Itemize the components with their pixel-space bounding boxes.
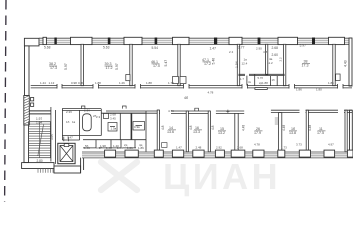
svg-text:1.47: 1.47 xyxy=(210,47,217,51)
watermark text CIAN xyxy=(163,156,281,197)
svg-text:4.48: 4.48 xyxy=(308,125,312,131)
svg-text:ЦИАН: ЦИАН xyxy=(163,156,281,197)
lower rooms top wall (corridor bottom) xyxy=(62,109,352,114)
room5 inner partition xyxy=(266,44,268,74)
svg-text:2.3: 2.3 xyxy=(96,115,101,119)
svg-text:0.97: 0.97 xyxy=(96,146,102,150)
svg-text:11.2: 11.2 xyxy=(267,61,273,65)
svg-text:5.63: 5.63 xyxy=(103,45,110,49)
window W6 xyxy=(278,37,298,44)
warren internal partitions xyxy=(62,109,146,152)
svg-text:1б: 1б xyxy=(272,78,276,82)
svg-text:17.9: 17.9 xyxy=(254,131,261,135)
chimney stubs xyxy=(82,106,127,109)
svg-text:4.8: 4.8 xyxy=(189,125,193,130)
svg-text:2.2: 2.2 xyxy=(278,57,282,62)
svg-text:17.2: 17.2 xyxy=(204,62,211,66)
partition lower rooms G/H xyxy=(345,110,347,152)
partition lower rooms A/B xyxy=(157,110,159,152)
svg-text:1.86: 1.86 xyxy=(296,88,302,92)
partition lower rooms E/F (T2 stem) xyxy=(278,113,281,152)
bottom wall hatched band xyxy=(82,152,353,158)
svg-text:2.3б: 2.3б xyxy=(84,108,90,112)
svg-text:5.97: 5.97 xyxy=(64,63,68,70)
svg-text:0.9в: 0.9в xyxy=(134,125,140,129)
svg-text:5.7б: 5.7б xyxy=(258,76,264,80)
svg-text:1.48: 1.48 xyxy=(106,146,112,150)
WC fixtures xyxy=(104,114,145,132)
bottom-left wall band under stairs xyxy=(22,163,54,169)
misc small marks under window5 xyxy=(229,47,282,66)
svg-text:1.10: 1.10 xyxy=(117,146,123,150)
window B3 xyxy=(154,150,163,157)
door jambs corridor left xyxy=(31,98,34,107)
svg-text:1.94: 1.94 xyxy=(235,61,239,68)
partition rooms 6/7 xyxy=(333,44,335,85)
svg-text:4.8: 4.8 xyxy=(211,125,215,130)
svg-text:2.92: 2.92 xyxy=(216,146,222,150)
svg-text:1.73: 1.73 xyxy=(281,146,287,150)
svg-text:2.3б: 2.3б xyxy=(66,110,72,114)
svg-text:2.90: 2.90 xyxy=(256,47,262,51)
window W7 xyxy=(329,37,345,44)
svg-text:1.44: 1.44 xyxy=(40,81,46,85)
radiator room A xyxy=(162,143,167,148)
svg-text:5.46: 5.46 xyxy=(212,58,216,65)
svg-text:1.88: 1.88 xyxy=(146,81,152,85)
room label fraction bars xyxy=(49,62,326,131)
partition lower rooms F/G xyxy=(306,110,308,152)
svg-text:1.88: 1.88 xyxy=(262,81,268,85)
window B5 xyxy=(193,150,204,157)
svg-text:17.3: 17.3 xyxy=(50,66,57,70)
svg-text:4б: 4б xyxy=(184,96,188,100)
window B10 xyxy=(299,150,310,157)
window B11 xyxy=(324,150,335,157)
svg-text:1.13: 1.13 xyxy=(49,81,55,85)
svg-text:4.48: 4.48 xyxy=(282,125,286,131)
wall pier P5 xyxy=(258,38,261,45)
staircase landing top wall xyxy=(29,111,51,114)
step-up to main band xyxy=(81,158,84,173)
partition rooms 2/3 xyxy=(130,44,132,85)
wall pier P1 xyxy=(54,38,56,45)
stub pair on lower wall xyxy=(195,108,199,111)
right outer wall bottom xyxy=(350,110,353,152)
svg-text:2.48: 2.48 xyxy=(196,146,202,150)
svg-text:17.5: 17.5 xyxy=(317,131,324,135)
svg-text:1.46: 1.46 xyxy=(84,146,90,150)
svg-text:4 8: 4 8 xyxy=(263,50,268,54)
elevator shaft xyxy=(58,143,75,163)
partition rooms 3/4 xyxy=(178,44,180,85)
svg-text:1.86: 1.86 xyxy=(328,81,334,85)
partition rooms 4/5 xyxy=(237,44,239,85)
window W5 xyxy=(229,37,242,44)
window B8 xyxy=(253,150,264,157)
lower rooms labels xyxy=(167,126,324,135)
svg-text:4.97: 4.97 xyxy=(328,143,334,147)
window W4 xyxy=(173,37,190,44)
svg-text:3.73: 3.73 xyxy=(296,143,302,147)
wall pier P3 xyxy=(155,38,158,45)
torn paper edge dashed line xyxy=(5,0,6,202)
svg-text:17.2: 17.2 xyxy=(106,66,113,70)
bottom dim texts row xyxy=(84,109,334,150)
room side dims upper row (rotated) xyxy=(64,58,348,70)
corridor wall bump xyxy=(255,88,267,90)
door leaf on partition room6 xyxy=(336,74,341,81)
window W3 xyxy=(124,37,142,44)
bottom-left wall band under elevator xyxy=(54,166,81,173)
lower rooms side dims xyxy=(161,125,312,131)
partition rooms 5/6 xyxy=(283,44,285,85)
svg-text:1б: 1б xyxy=(66,120,70,124)
closet room 2 xyxy=(126,75,130,81)
svg-text:13.8: 13.8 xyxy=(289,131,296,135)
svg-text:2.68: 2.68 xyxy=(272,46,279,50)
svg-text:13.6: 13.6 xyxy=(167,130,174,134)
closets rooms 3-4 xyxy=(173,77,187,84)
window W2 xyxy=(71,37,93,44)
window B12 xyxy=(347,150,353,157)
entrance steps ticks xyxy=(38,169,53,173)
window B6 xyxy=(215,150,224,157)
wall pier P4 xyxy=(214,38,217,45)
svg-text:3.05: 3.05 xyxy=(50,134,54,140)
svg-text:5.47: 5.47 xyxy=(164,60,168,67)
corridor top wall with door gaps xyxy=(31,86,352,88)
window W1 xyxy=(43,37,46,44)
elevator door ticks xyxy=(64,137,69,142)
svg-text:3.45: 3.45 xyxy=(110,117,116,121)
room5 small labels xyxy=(240,76,275,85)
svg-text:1.5в: 1.5в xyxy=(111,127,117,131)
partition lower rooms D/E (T1 stem) xyxy=(235,113,238,151)
window B4 xyxy=(172,150,183,157)
corridor top wall dim texts xyxy=(40,81,334,92)
svg-text:5.68: 5.68 xyxy=(44,45,51,49)
svg-text:1.47: 1.47 xyxy=(176,146,182,150)
svg-text:17.0: 17.0 xyxy=(153,64,160,68)
svg-text:2.60: 2.60 xyxy=(272,53,279,57)
bathtub xyxy=(83,114,92,131)
window B1 xyxy=(105,150,116,157)
svg-text:4.73: 4.73 xyxy=(168,109,174,113)
top outer wall corner (left) xyxy=(24,38,39,95)
svg-text:5.54: 5.54 xyxy=(152,46,159,50)
top wall hatched band xyxy=(39,38,352,44)
partition lower rooms B/C xyxy=(186,111,188,152)
svg-text:1.86: 1.86 xyxy=(138,146,144,150)
svg-text:4.78: 4.78 xyxy=(254,143,260,147)
svg-text:1.70: 1.70 xyxy=(168,81,174,85)
radiator hatch right of T2 xyxy=(275,118,279,124)
plus mark near T1 xyxy=(226,110,229,114)
svg-text:1.7: 1.7 xyxy=(240,77,244,81)
svg-text:5.97: 5.97 xyxy=(115,63,119,70)
svg-text:4.48: 4.48 xyxy=(242,125,246,131)
svg-text:0.98: 0.98 xyxy=(71,81,77,85)
svg-text:2.68: 2.68 xyxy=(110,113,116,117)
svg-text:2 4: 2 4 xyxy=(229,50,234,54)
watermark logo X xyxy=(101,162,137,190)
top band dimension texts xyxy=(44,44,306,58)
svg-text:1.04: 1.04 xyxy=(36,121,42,125)
svg-text:13.3: 13.3 xyxy=(193,130,200,134)
svg-text:1.80: 1.80 xyxy=(316,88,322,92)
door jamb ticks corridor top wall xyxy=(57,84,343,89)
staircase right wall xyxy=(51,107,56,164)
svg-text:2.80: 2.80 xyxy=(37,159,43,163)
svg-text:2.77: 2.77 xyxy=(238,46,245,50)
svg-text:13.2: 13.2 xyxy=(218,131,225,135)
right outer wall top xyxy=(349,38,352,86)
window B7 xyxy=(231,150,245,157)
partition rooms 1/2 xyxy=(81,44,83,85)
svg-text:17.3: 17.3 xyxy=(302,64,309,68)
svg-text:1в: 1в xyxy=(72,120,76,124)
svg-text:1.26: 1.26 xyxy=(119,81,125,85)
warren tiny labels xyxy=(66,108,143,148)
svg-text:4.8: 4.8 xyxy=(161,125,165,130)
svg-text:2.68: 2.68 xyxy=(237,146,243,150)
window B9 xyxy=(278,150,285,157)
svg-text:0.47: 0.47 xyxy=(67,136,73,140)
room labels upper row xyxy=(49,58,309,70)
svg-text:1.21: 1.21 xyxy=(127,146,133,150)
room5 hallway wall xyxy=(239,74,285,85)
staircase landing labels xyxy=(36,117,54,163)
left wall middle (hatched) xyxy=(24,96,30,163)
staircase xyxy=(29,122,51,158)
svg-text:5.97: 5.97 xyxy=(300,44,307,48)
svg-text:12.4: 12.4 xyxy=(242,62,248,66)
corridor label xyxy=(184,90,214,99)
svg-text:4.78: 4.78 xyxy=(208,90,214,94)
partition lower rooms C/D xyxy=(208,111,210,152)
svg-text:4.43: 4.43 xyxy=(344,60,348,67)
svg-text:1.88: 1.88 xyxy=(95,81,101,85)
wall pier P6 xyxy=(312,38,315,45)
window B2 xyxy=(125,150,138,157)
svg-text:0.88: 0.88 xyxy=(78,81,84,85)
wall pier P2 xyxy=(108,38,111,45)
